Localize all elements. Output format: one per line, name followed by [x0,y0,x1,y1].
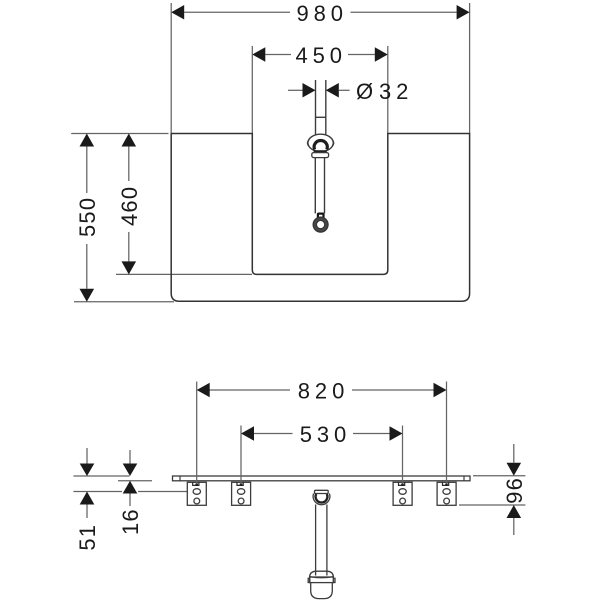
svg-text:32: 32 [379,79,413,104]
svg-text:530: 530 [300,422,351,447]
svg-text:96: 96 [502,477,527,504]
svg-text:51: 51 [75,524,100,551]
svg-text:Ø: Ø [356,79,378,104]
svg-text:980: 980 [296,1,347,26]
svg-text:460: 460 [117,186,142,226]
svg-text:450: 450 [295,43,346,68]
svg-text:550: 550 [75,197,100,237]
svg-text:820: 820 [298,379,349,404]
svg-text:16: 16 [118,508,143,535]
